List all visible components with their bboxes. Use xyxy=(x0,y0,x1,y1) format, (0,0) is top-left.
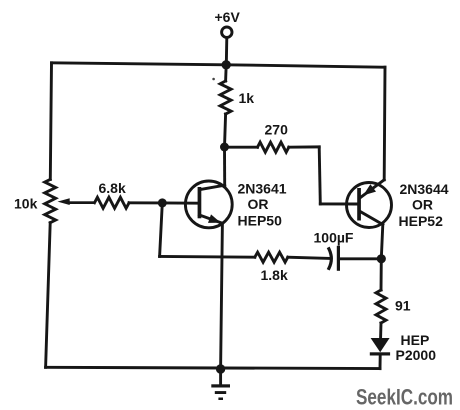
capacitor C1 100uF straight plate xyxy=(337,247,340,269)
svg-text:SeekIC.com: SeekIC.com xyxy=(356,385,453,410)
svg-text:10k: 10k xyxy=(14,195,38,211)
wire node to collector of Q1 xyxy=(223,147,226,185)
svg-text:OR: OR xyxy=(412,196,433,212)
wire left rail upper xyxy=(50,63,51,180)
wire 91 to diode xyxy=(379,323,382,337)
svg-text:OR: OR xyxy=(248,196,269,212)
svg-text:+6V: +6V xyxy=(215,9,241,25)
transistor Q2 emitter diagonal xyxy=(360,180,384,198)
ground stem xyxy=(219,369,222,384)
wire wiper arrow shaft xyxy=(66,201,95,204)
wire base lead of Q1 xyxy=(162,201,197,204)
wire across to 1.8k xyxy=(160,255,255,259)
wire node to 91 xyxy=(380,259,383,290)
svg-text:1.8k: 1.8k xyxy=(261,267,288,283)
wire corner down to base of Q2 xyxy=(319,147,320,204)
transistor Q1 emitter diagonal xyxy=(199,215,222,223)
svg-text:6.8k: 6.8k xyxy=(99,180,126,196)
transistor Q2 base bar xyxy=(357,188,361,221)
ground bar 3 xyxy=(218,398,223,401)
node junction top rail xyxy=(222,60,231,69)
node junction capacitor / Q2 collector xyxy=(377,254,386,263)
wire capacitor to node xyxy=(340,257,381,260)
wire top rail xyxy=(52,63,386,67)
wire 6.8k to base node xyxy=(129,201,162,204)
resistor 91 xyxy=(376,290,386,323)
wire 270 to corner xyxy=(289,145,319,148)
wire from top rail to 1k xyxy=(224,65,227,81)
transistor Q1 collector diagonal xyxy=(200,185,225,189)
svg-text:HEP: HEP xyxy=(401,332,430,348)
diode D1 HEP P2000 triangle xyxy=(371,338,390,352)
wire right rail upper xyxy=(383,67,387,180)
node junction below 1k xyxy=(220,143,229,152)
resistor 6.8k xyxy=(95,197,130,208)
transistor Q2 2N3644 circle xyxy=(347,183,392,228)
svg-text:91: 91 xyxy=(395,298,411,314)
wire to base bar of Q2 xyxy=(320,202,357,205)
resistor 270 xyxy=(258,142,289,152)
svg-text:P2000: P2000 xyxy=(396,347,437,363)
transistor Q2 emitter arrowhead xyxy=(363,184,376,195)
svg-text:270: 270 xyxy=(265,121,289,137)
resistor 1.8k xyxy=(255,252,288,262)
capacitor C1 100uF curved plate xyxy=(329,249,331,269)
speck artifact xyxy=(212,78,215,81)
diode D1 cathode bar xyxy=(370,352,390,355)
wire 1.8k to capacitor xyxy=(288,257,329,258)
transistor Q2 collector diagonal xyxy=(360,211,383,224)
wire 1k to node xyxy=(225,114,226,147)
wire node to 270 xyxy=(225,146,258,149)
svg-text:1k: 1k xyxy=(239,90,255,106)
ground bar 2 xyxy=(215,391,226,394)
svg-text:2N3641: 2N3641 xyxy=(238,181,287,197)
wire emitter of Q1 down to ground rail xyxy=(221,223,223,369)
potentiometer wiper arrowhead xyxy=(58,198,70,205)
node junction ground xyxy=(216,364,225,373)
wire left rail lower xyxy=(46,223,51,368)
wire supply stem xyxy=(225,38,228,65)
wire Q2 collector down to node xyxy=(381,225,383,259)
svg-text:100µF: 100µF xyxy=(314,229,354,245)
svg-text:2N3644: 2N3644 xyxy=(400,181,449,197)
wire bottom rail xyxy=(46,367,380,368)
node junction Q1 base xyxy=(158,198,167,207)
transistor Q1 emitter arrowhead xyxy=(208,214,221,223)
potentiometer 10k xyxy=(45,179,56,222)
ground bar 1 xyxy=(211,384,230,387)
svg-text:HEP52: HEP52 xyxy=(399,213,444,229)
svg-text:HEP50: HEP50 xyxy=(238,213,283,229)
resistor 1k xyxy=(220,81,231,114)
transistor Q1 2N3641 circle xyxy=(185,181,232,228)
wire diode to bottom rail xyxy=(379,355,382,368)
wire base node down xyxy=(160,203,163,257)
transistor Q1 base bar xyxy=(198,187,202,218)
supply terminal +6V xyxy=(222,27,232,37)
